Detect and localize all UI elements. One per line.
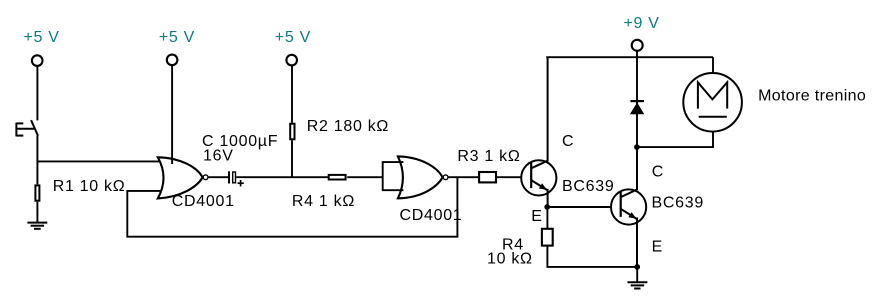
motor M1	[683, 73, 742, 132]
wire switch to node A	[36, 136, 38, 162]
NOR gate U1A CD4001	[158, 157, 208, 198]
svg-text:R2 180 kΩ: R2 180 kΩ	[307, 118, 389, 135]
wire rail to motor top	[712, 57, 714, 73]
svg-text:+9 V: +9 V	[624, 15, 660, 32]
wire R1 to ground	[36, 202, 38, 223]
transistor Q2 BC639	[611, 147, 646, 267]
wire gate2 output to R3	[448, 176, 478, 178]
terminal +5V (R2 branch)	[286, 55, 297, 66]
wire gate1 output to capacitor	[208, 176, 228, 178]
NOR gate U1B CD4001	[398, 156, 448, 198]
wire capacitor to node B	[236, 176, 292, 178]
resistor R3	[479, 172, 496, 182]
node diode / motor junction	[634, 144, 640, 150]
wire terminal to switch	[36, 66, 38, 120]
svg-text:E: E	[531, 208, 542, 225]
capacitor C 1000uF (polarized)	[229, 171, 244, 186]
wire R4 1k to gate2 input tie	[347, 176, 383, 178]
svg-text:Motore trenino: Motore trenino	[758, 88, 866, 105]
svg-text:+5 V: +5 V	[24, 29, 60, 46]
svg-text:R4 1 kΩ: R4 1 kΩ	[292, 193, 355, 210]
svg-text:C: C	[562, 133, 574, 150]
resistor R4 1k	[329, 175, 346, 180]
diode D1 (flyback)	[630, 101, 644, 114]
svg-text:+5 V: +5 V	[159, 29, 195, 46]
wire junction to ground	[636, 267, 638, 282]
terminal +9V	[632, 40, 643, 51]
svg-text:16V: 16V	[203, 148, 234, 165]
wire terminal to gate1 power pin	[171, 65, 173, 164]
wire node B to R4 1k	[292, 176, 328, 178]
svg-text:CD4001: CD4001	[400, 207, 463, 224]
wire junction to R4 10k	[546, 207, 548, 229]
resistor R4 10k	[542, 229, 553, 246]
wire Q1 emitter to Q2 base	[548, 206, 611, 208]
resistor R2	[290, 124, 294, 140]
svg-text:E: E	[652, 238, 663, 255]
svg-text:R3 1 kΩ: R3 1 kΩ	[457, 148, 520, 165]
wire terminal to R2	[291, 66, 293, 123]
terminal +5V (gate power)	[167, 55, 178, 66]
wire gate2 input tie bar	[383, 161, 404, 191]
svg-text:BC639: BC639	[562, 178, 614, 195]
svg-text:BC639: BC639	[652, 195, 704, 212]
resistor R1	[35, 185, 39, 200]
wire R3 to Q1 base	[497, 176, 521, 178]
svg-text:10 kΩ: 10 kΩ	[487, 251, 533, 268]
wire R4 10k to ground rail	[547, 246, 637, 267]
svg-text:C: C	[652, 163, 664, 180]
wire feedback gate2 output to gate1 input 2	[127, 177, 457, 237]
ground (motor driver)	[627, 282, 647, 288]
wire +9V terminal down to diode and Q2 collector	[636, 51, 638, 147]
svg-text:R1 10 kΩ: R1 10 kΩ	[53, 178, 126, 195]
terminal +5V (switch branch)	[32, 55, 43, 66]
wire node A to R1	[36, 161, 38, 184]
svg-text:+5 V: +5 V	[275, 29, 311, 46]
switch S1	[16, 120, 38, 136]
wire node A to gate1 input 1	[37, 160, 161, 162]
node ground junction	[634, 264, 640, 270]
wire junction to motor bottom	[637, 132, 713, 147]
wire +9V rail horizontal	[546, 56, 713, 58]
node Q1 emitter junction	[544, 204, 550, 210]
svg-text:CD4001: CD4001	[172, 193, 235, 210]
wire R2 to node B	[291, 140, 293, 177]
transistor Q1 BC639	[521, 57, 556, 207]
ground (R1)	[27, 223, 47, 229]
